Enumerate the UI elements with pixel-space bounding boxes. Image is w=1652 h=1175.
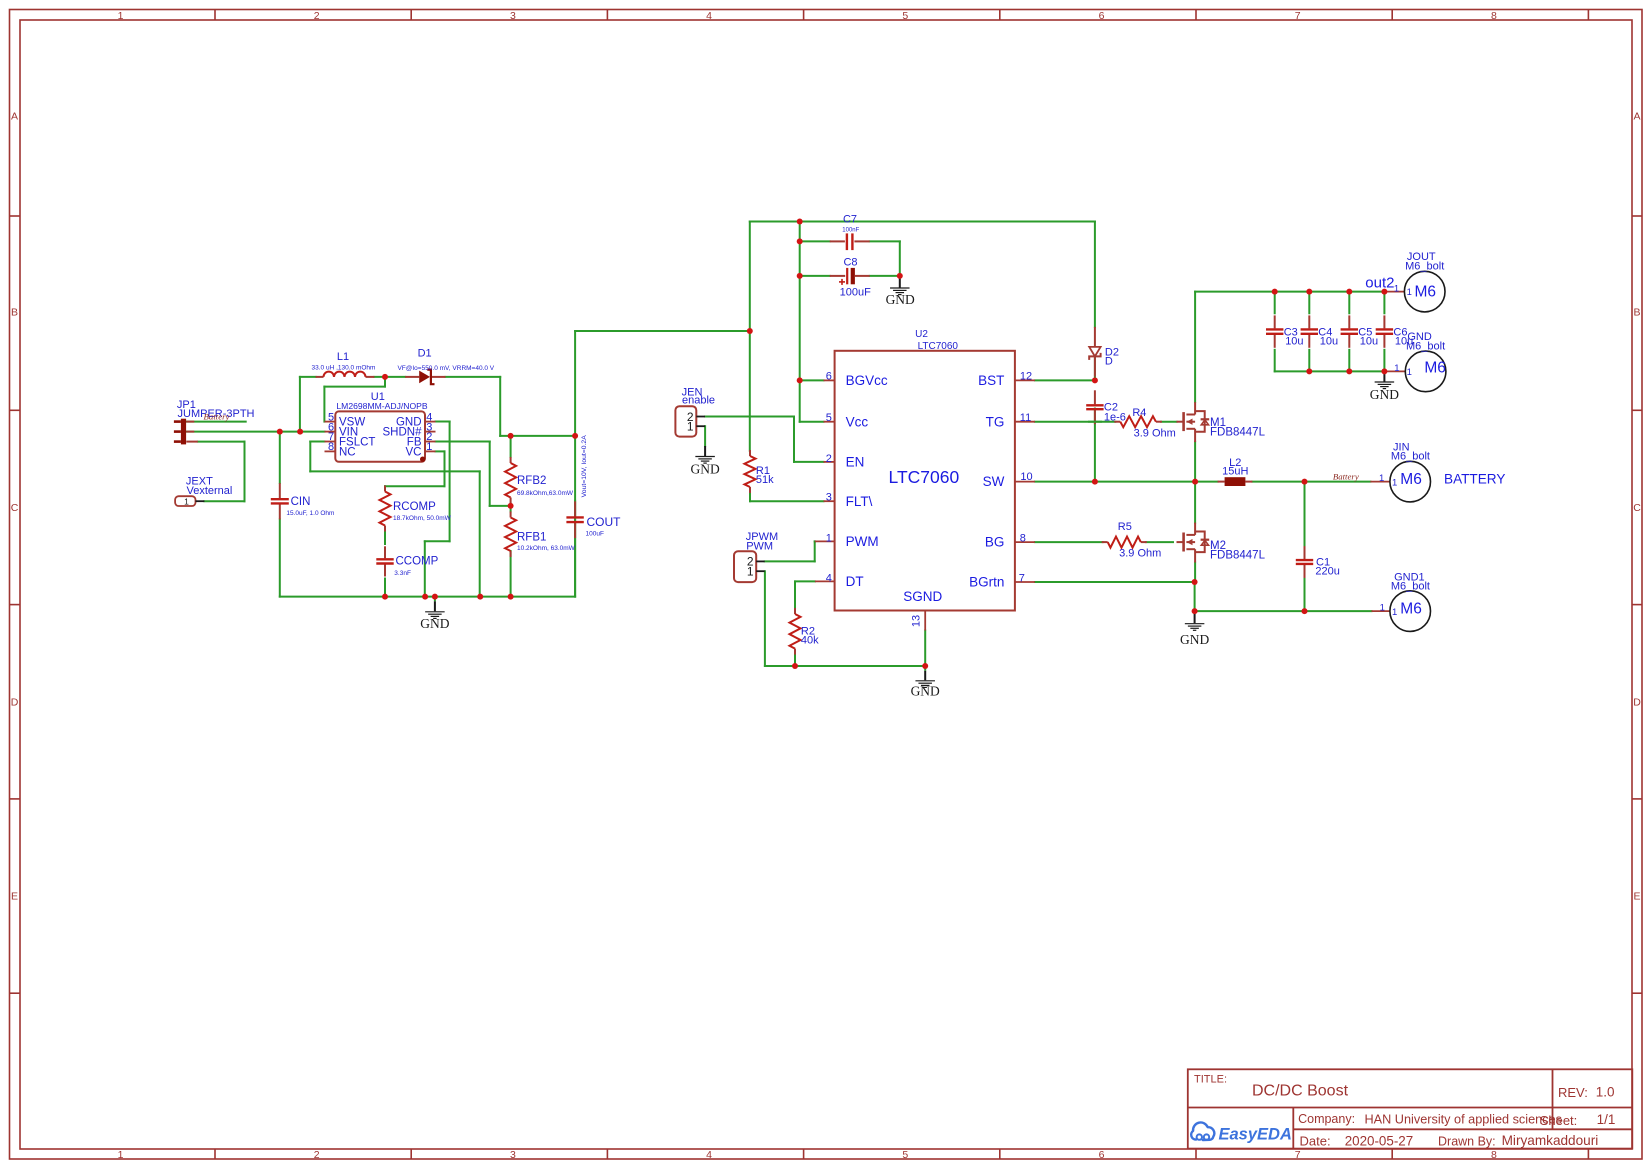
svg-text:C: C [11,502,19,514]
IC U1 LM2698 [325,411,436,462]
connector JEN [675,406,705,436]
wire CIN bottom lead [279,520,281,597]
connector JEXT [175,496,204,506]
green wire patch over C2 stub crossing [1088,421,1102,423]
svg-text:M6_bolt: M6_bolt [1405,260,1444,272]
resistor RFB1 [505,512,516,558]
wire BGVcc pin lead [800,379,824,381]
labels JOUT [1365,251,1444,301]
svg-text:10u: 10u [1285,336,1303,348]
svg-text:8: 8 [1491,10,1497,22]
wire COUT bottom lead [574,501,576,597]
label C6 [1393,326,1413,347]
svg-text:11: 11 [1020,412,1031,424]
label JEXT Vexternal [186,475,232,497]
svg-text:4: 4 [706,10,712,22]
capacitor COUT [566,501,583,538]
svg-text:E: E [1633,891,1640,903]
svg-text:10u: 10u [1320,336,1338,348]
svg-text:BST: BST [978,373,1004,388]
resistor R1 [745,450,756,493]
svg-text:6: 6 [826,370,832,382]
wire CIN top lead [279,432,281,483]
U1 pin numbers [328,411,432,453]
wire D2 anode feed [1094,222,1096,327]
svg-text:1: 1 [118,1149,124,1161]
label COUT [586,515,622,537]
svg-text:1/1: 1/1 [1597,1112,1616,1127]
wire M2 source lead [1194,563,1196,582]
svg-text:GND: GND [886,292,915,307]
wire FSLCT stub link [310,441,324,443]
svg-text:C8: C8 [843,257,857,269]
svg-text:4: 4 [706,1149,712,1161]
svg-text:VF@Io=550.0 mV, VRRM=40.0 V: VF@Io=550.0 mV, VRRM=40.0 V [397,365,494,372]
svg-text:6: 6 [1099,1149,1105,1161]
wire SGND lead [924,631,926,667]
svg-text:DC/DC Boost: DC/DC Boost [1252,1082,1349,1099]
label D2 [1105,347,1119,368]
svg-text:LTC7060: LTC7060 [889,467,960,487]
svg-text:D: D [1105,356,1113,368]
svg-text:CIN: CIN [291,496,311,508]
inductor L1 [316,372,375,377]
label C3 [1284,326,1304,347]
label C4 [1318,326,1338,347]
svg-text:1: 1 [747,565,754,579]
svg-text:Company:: Company: [1298,1112,1355,1126]
svg-text:BGVcc: BGVcc [846,373,888,388]
svg-text:2: 2 [314,1149,320,1161]
wire TG to R4 [1035,421,1115,423]
svg-text:FDB8447L: FDB8447L [1210,550,1266,562]
wire R2 bottom lead [794,653,796,666]
wire CCOMP bottom [384,579,386,597]
svg-text:VC: VC [406,446,422,458]
resistor R5 [1102,537,1147,548]
svg-text:1: 1 [687,420,694,434]
bolt GND M6 [1384,351,1445,392]
wire JPWM pin1 ground rail [765,571,925,666]
bolt JOUT M6 [1386,271,1445,312]
svg-text:2: 2 [314,10,320,22]
svg-text:1: 1 [1392,477,1397,488]
svg-text:5: 5 [902,10,908,22]
svg-text:HAN University of applied scie: HAN University of applied sciences [1365,1112,1562,1126]
svg-text:1: 1 [1394,284,1399,295]
wire JEN pin1 to GND [704,426,706,446]
wire C1 bottom lead [1304,579,1306,612]
wire L1-left to VIN [299,377,301,432]
title block text [1194,1073,1615,1148]
bolt JIN M6 [1370,461,1430,502]
svg-text:1: 1 [118,10,124,22]
svg-text:33.0 uH ,130.0 mOhm: 33.0 uH ,130.0 mOhm [312,364,376,371]
wire Battery net stub [186,421,245,423]
label R2 [801,626,819,647]
wire capacitor bank ground rail [1275,370,1385,372]
resistor RCOMP [380,486,391,532]
JPWM pin numbers [747,555,754,579]
svg-text:PWM: PWM [746,541,773,553]
capacitor C2 [1086,390,1103,424]
wire D2 cathode to BST node [1094,356,1096,380]
wire C3 top lead [1274,292,1276,314]
svg-text:4: 4 [826,573,832,585]
svg-text:3.9 Ohm: 3.9 Ohm [1134,427,1176,439]
svg-text:D: D [11,696,19,708]
label RFB1 [517,531,576,552]
svg-text:Vexternal: Vexternal [187,485,233,497]
svg-text:Vout=10V, Iout=0.2A: Vout=10V, Iout=0.2A [581,435,588,498]
svg-text:1: 1 [1394,363,1399,374]
svg-text:Date:: Date: [1300,1134,1331,1149]
svg-text:13: 13 [911,615,923,627]
wire M2 source to ground [1194,582,1196,611]
label C1 [1315,556,1339,577]
label C2 [1104,402,1126,424]
svg-text:Sheet:: Sheet: [1540,1113,1578,1128]
labels GND bolt [1394,331,1446,378]
wire C7 right to C8 node [870,241,900,276]
svg-text:FLT\: FLT\ [846,494,873,509]
wire C7 left lead [800,240,830,242]
svg-text:GND: GND [1370,387,1399,402]
wire switch node to VSW [324,377,385,422]
svg-text:100uF: 100uF [586,530,604,537]
svg-text:EN: EN [846,455,865,470]
label RCOMP [393,501,452,522]
inductor L2 ferrite bead [1218,477,1253,486]
svg-text:Battery: Battery [1333,471,1359,481]
svg-text:1: 1 [1380,602,1385,613]
svg-text:GND: GND [1180,632,1209,647]
svg-text:Battery: Battery [204,411,230,421]
wire C6 top lead [1383,292,1385,314]
svg-text:7: 7 [1295,1149,1301,1161]
wire SW to M2 drain [1194,482,1196,523]
svg-text:1: 1 [1392,607,1397,618]
wire C6 bottom lead [1383,350,1385,372]
wire BG to R5 [1035,541,1103,543]
wire R5 to M2 gate [1146,541,1173,543]
svg-text:NC: NC [339,446,356,458]
wire JEXT to JP1 pin3 [198,442,245,502]
U2 pin numbers [826,370,1033,627]
wire FB to divider tap [436,442,511,506]
svg-text:FDB8447L: FDB8447L [1210,427,1266,439]
svg-text:3: 3 [510,10,516,22]
label JP1 [177,399,255,420]
svg-text:220u: 220u [1315,565,1339,577]
svg-text:6: 6 [1099,10,1105,22]
svg-text:BATTERY: BATTERY [1444,471,1505,486]
label C5 [1358,326,1378,347]
svg-text:RCOMP: RCOMP [393,501,436,513]
resistor R4 [1114,416,1162,427]
wire BGrtn to M2 source [1035,581,1195,583]
ground symbol at M2 source [1185,611,1205,630]
transistor M2 FDB8447L [1177,523,1210,563]
labels U2 [915,329,958,352]
wire SW rail [1035,481,1218,483]
svg-text:Vcc: Vcc [846,414,869,429]
label C7 [842,213,859,233]
ground symbol at SGND [915,666,935,687]
diode D1 [405,370,445,385]
wire left ground rail [280,596,575,598]
svg-text:12: 12 [1020,371,1032,383]
capacitor C8 polarized [830,268,870,285]
labels GND1 [1380,571,1430,618]
labels U1 [336,391,427,411]
wire RCOMP-CCOMP link [384,528,386,545]
wire M1 source to SW [1194,442,1196,482]
label CCOMP [394,556,438,577]
svg-text:BG: BG [985,535,1005,550]
wire C5 bottom lead [1348,350,1350,372]
resistor RFB2 [505,457,516,504]
label L1 [312,351,376,372]
wire Vout horizontal [575,330,750,332]
wire R1 to FLT [750,492,824,501]
svg-text:51k: 51k [756,474,774,486]
svg-text:1: 1 [184,497,189,507]
JEN pin numbers [687,410,694,434]
svg-text:E: E [11,891,18,903]
wire battery node to JIN [1305,481,1371,483]
svg-text:7: 7 [1019,573,1025,585]
svg-text:PWM: PWM [846,534,879,549]
svg-text:RFB2: RFB2 [517,475,546,487]
svg-text:8: 8 [328,441,334,453]
svg-text:10.2kOhm, 63.0mW: 10.2kOhm, 63.0mW [517,545,576,552]
wire C5 top lead [1348,292,1350,314]
ground symbol at C8 [890,276,910,295]
svg-text:SGND: SGND [903,589,942,604]
label R4 [1132,407,1175,440]
bolt GND1 M6 [1372,591,1431,632]
svg-text:69.8kOhm,63.0mW: 69.8kOhm,63.0mW [517,490,574,497]
wire JPWM to PWM pin [765,541,815,561]
resistor R2 [790,608,801,655]
svg-text:8: 8 [1020,533,1026,545]
wire FSLCT to ground rail [310,442,479,597]
svg-text:B: B [1633,307,1640,319]
wire C8 left lead [800,275,830,277]
svg-text:COUT: COUT [587,515,622,529]
svg-text:LM2698MM-ADJ/NOPB: LM2698MM-ADJ/NOPB [336,401,427,411]
transistor M1 FDB8447L [1177,402,1210,442]
svg-text:15uH: 15uH [1222,466,1248,478]
svg-text:CCOMP: CCOMP [396,556,439,568]
wire right ground rail [1195,610,1372,612]
wire RCOMP top [384,486,386,489]
label M2 [1210,540,1266,562]
label CIN [286,496,334,517]
svg-text:LTC7060: LTC7060 [918,341,959,352]
wire C4 top lead [1308,292,1310,314]
wire R2 top lead [794,581,796,609]
svg-text:enable: enable [682,395,715,407]
svg-text:3.9 Ohm: 3.9 Ohm [1119,548,1161,560]
svg-text:M6: M6 [1400,471,1422,488]
svg-text:100nF: 100nF [842,228,859,234]
svg-text:DT: DT [846,574,864,589]
svg-text:GND: GND [690,461,719,476]
label RFB2 [517,475,574,497]
svg-text:out2: out2 [1365,275,1394,292]
EasyEDA logo [1191,1122,1292,1143]
svg-text:C: C [1633,502,1641,514]
svg-text:A: A [11,111,18,123]
connector JPWM [734,551,765,582]
wire output to COUT rail [500,435,575,437]
label L2 [1222,457,1248,478]
svg-text:M6_bolt: M6_bolt [1391,580,1430,592]
wire M1 drain rail [1194,292,1196,402]
wire R4 to M1 gate [1161,421,1177,423]
svg-text:5: 5 [902,1149,908,1161]
wire VC to RCOMP [385,451,445,486]
label JEN enable [682,387,715,407]
wire RFB2 top lead [510,436,512,457]
wire vertical Vout-to-R1 rail [749,222,751,451]
svg-text:1: 1 [1407,367,1412,378]
label R1 [756,465,774,486]
capacitor CCOMP [376,546,393,576]
capacitor CIN [271,483,289,519]
svg-text:2020-05-27: 2020-05-27 [1345,1133,1414,1148]
svg-text:Drawn By:: Drawn By: [1438,1135,1496,1149]
svg-text:D1: D1 [418,347,432,359]
svg-text:B: B [11,307,18,319]
wire VIN rail [186,431,324,433]
wire C3 bottom lead [1274,350,1276,372]
svg-text:10: 10 [1020,471,1032,483]
svg-text:1: 1 [1379,473,1384,484]
svg-text:7: 7 [1295,10,1301,22]
svg-text:REV:: REV: [1558,1085,1588,1100]
capacitor C1 [1296,546,1313,578]
ground symbol at JEN [695,446,715,463]
label D1 [397,347,494,371]
jumper JP1 [174,419,198,445]
svg-text:C7: C7 [843,213,857,225]
svg-text:3: 3 [510,1149,516,1161]
svg-text:2: 2 [826,453,832,465]
svg-text:M6: M6 [1424,359,1446,376]
svg-text:1: 1 [826,532,832,544]
svg-text:3.3nF: 3.3nF [394,570,411,577]
svg-text:100uF: 100uF [840,286,871,298]
label JPWM PWM [746,531,778,553]
svg-text:1.0: 1.0 [1596,1085,1615,1100]
svg-text:RFB1: RFB1 [517,531,546,543]
wire JEN enable to EN [705,417,824,462]
wire RFB2-RFB1 tap [510,504,512,512]
capacitor C4 [1301,315,1318,347]
wire top Vcc rail [750,221,1095,223]
wire COUT rail [574,331,576,597]
wire out2 rail [1195,291,1386,293]
svg-text:Miryamkaddouri: Miryamkaddouri [1502,1133,1599,1148]
U1 pin names [339,417,422,459]
svg-text:M6_bolt: M6_bolt [1406,341,1445,353]
svg-text:D: D [1633,696,1641,708]
wire Vcc pin lead [800,421,824,423]
svg-text:5: 5 [826,412,832,424]
svg-text:M6: M6 [1400,601,1422,618]
capacitor C3 [1266,315,1283,347]
svg-text:1: 1 [426,441,432,453]
labels JIN [1379,441,1430,488]
svg-text:10u: 10u [1360,336,1378,348]
wire C8 right lead [870,275,900,277]
label R5 [1118,521,1162,560]
svg-text:M6: M6 [1415,284,1437,301]
wire C2 bottom to SW [1094,409,1096,482]
wire U1 GND pin to rail [425,422,450,597]
wire DT pin lead [795,580,815,582]
svg-text:TG: TG [986,414,1005,429]
svg-text:M6_bolt: M6_bolt [1391,450,1430,462]
label M1 [1210,417,1266,439]
svg-text:40k: 40k [801,635,819,647]
title block [1188,1069,1633,1148]
wire L1 to D1 anode [374,376,405,378]
svg-text:8: 8 [1491,1149,1497,1161]
wire C7C8-BGVcc vertical [799,222,801,422]
svg-text:15.0uF, 1.0 Ohm: 15.0uF, 1.0 Ohm [286,510,334,517]
svg-text:3: 3 [826,491,832,503]
wire BST to bootstrap node [1035,379,1095,381]
IC U2 LTC7060 [815,351,1035,631]
svg-text:GND: GND [420,616,449,631]
wire L1 left lead [300,376,316,378]
wire C4 bottom lead [1308,350,1310,372]
wire D1 cathode to output [446,377,501,436]
svg-text:EasyEDA: EasyEDA [1219,1126,1292,1144]
svg-text:18.7kOhm, 50.0mW: 18.7kOhm, 50.0mW [393,515,452,522]
svg-text:R4: R4 [1132,407,1146,419]
ground symbol left rail [425,597,445,619]
svg-text:U2: U2 [915,329,928,340]
svg-text:GND: GND [911,684,940,699]
label C8 [840,257,871,299]
svg-text:L1: L1 [337,351,349,363]
svg-text:A: A [1633,111,1640,123]
capacitor C6 [1376,315,1393,347]
capacitor C5 [1341,315,1358,347]
svg-text:1: 1 [1407,287,1412,298]
diode D2 schottky [1089,327,1100,377]
svg-text:R5: R5 [1118,521,1132,533]
svg-text:SW: SW [983,474,1005,489]
ground symbol at capacitor bank [1375,371,1395,388]
wire C1 top lead [1304,482,1306,547]
capacitor C7 [830,233,870,250]
svg-text:BGrtn: BGrtn [969,575,1004,590]
wire RFB1 bottom lead [510,551,512,597]
svg-text:TITLE:: TITLE: [1194,1073,1227,1085]
wire L2 to battery node [1252,481,1304,483]
U2 pin names [846,373,1005,604]
